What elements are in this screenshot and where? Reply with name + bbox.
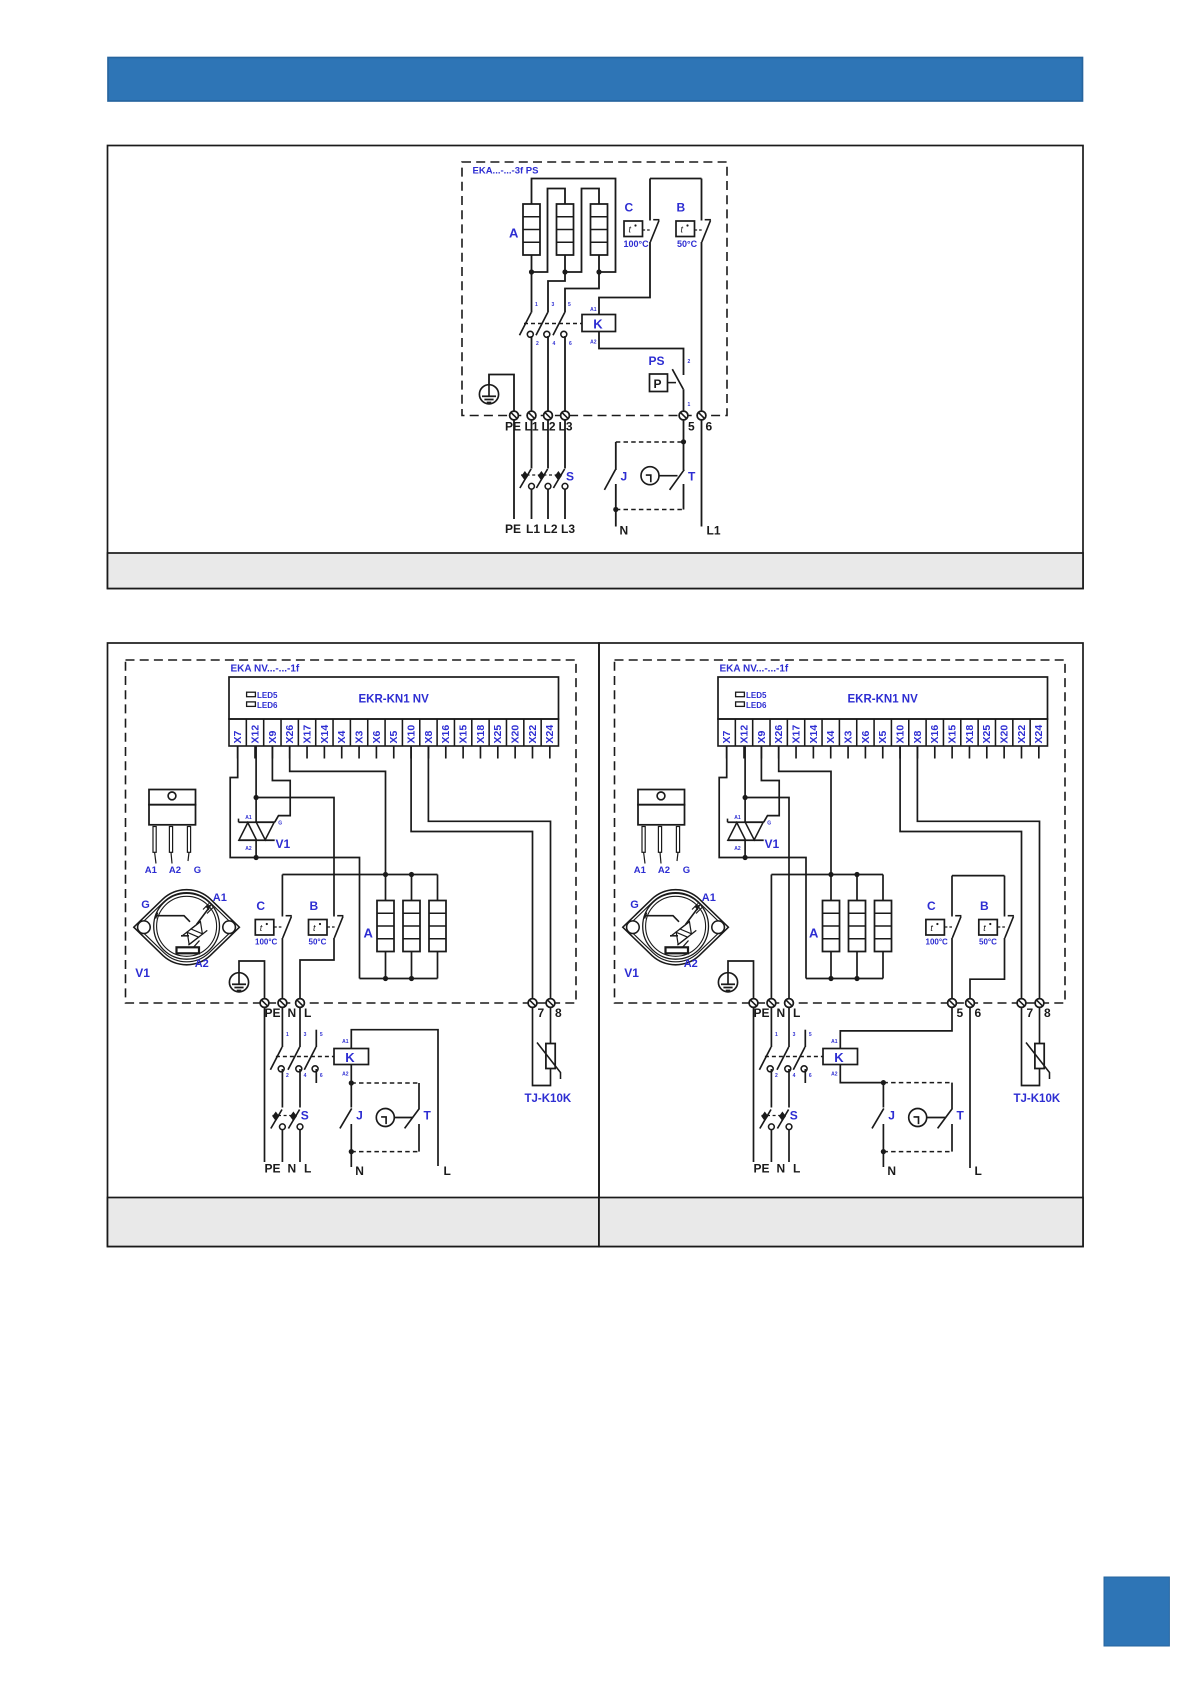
svg-text:L: L xyxy=(793,1162,800,1176)
wire thermostat B to terminal 6 xyxy=(970,938,1005,998)
wire coil A1 to terminal 5 xyxy=(840,1007,952,1048)
wire thermostat B to terminal L xyxy=(300,938,334,998)
svg-text:B: B xyxy=(677,201,686,215)
svg-text:2: 2 xyxy=(775,1073,778,1079)
room thermostat box bottom dashed edge xyxy=(351,1151,419,1153)
switch S linkage dashes xyxy=(272,1115,297,1117)
contactor K pole 1 contact xyxy=(520,313,534,338)
svg-text:L3: L3 xyxy=(561,522,575,536)
svg-text:A1: A1 xyxy=(245,815,252,821)
wire thermostat C to terminal 5 xyxy=(951,938,953,998)
terminal strip labels X7..X24 xyxy=(721,725,1045,744)
controller EKR-KN1 NV box xyxy=(718,677,1048,719)
wire A1 node to thermostat B xyxy=(256,798,334,917)
heater element section 2 xyxy=(403,901,420,952)
svg-text:C: C xyxy=(256,899,265,913)
svg-text:X4: X4 xyxy=(825,730,837,743)
wire pole1 to switch S xyxy=(281,1069,283,1108)
room thermostat box top dashed edge xyxy=(616,441,684,443)
supply labels PE N L xyxy=(754,1162,801,1176)
dashed actuator link B xyxy=(327,926,336,928)
terminal strip separators xyxy=(246,719,541,746)
svg-text:100°C: 100°C xyxy=(926,938,949,947)
room thermostat box top dashed edge xyxy=(351,1082,419,1084)
wire terminal L to pole xyxy=(788,1007,790,1047)
wire PE down xyxy=(513,420,515,519)
main switch S pole 3 xyxy=(553,469,567,489)
wire terminal N to pole xyxy=(281,1007,283,1047)
svg-text:T: T xyxy=(424,1109,432,1123)
svg-text:X10: X10 xyxy=(894,725,906,744)
wire S pole1 down xyxy=(281,1130,283,1163)
wire heater bus to terminal N xyxy=(770,875,772,999)
junction heater top 1 xyxy=(828,872,833,877)
svg-text:PE: PE xyxy=(265,1006,281,1020)
dashed actuator link C xyxy=(643,229,652,231)
contactor coil K xyxy=(334,1049,369,1065)
svg-text:X15: X15 xyxy=(947,725,959,744)
contactor K pole 2 contact xyxy=(288,1047,302,1072)
svg-text:N: N xyxy=(620,524,629,538)
main switch S pole 1 xyxy=(271,1110,286,1130)
svg-text:PS: PS xyxy=(649,354,665,368)
svg-text:X16: X16 xyxy=(440,725,452,744)
svg-text:A2: A2 xyxy=(831,1072,838,1078)
svg-text:5: 5 xyxy=(568,302,571,308)
heater element A section 3 xyxy=(591,204,608,255)
contactor coil K xyxy=(582,315,616,332)
junction at thermostat box corner xyxy=(881,1080,886,1085)
terminal N xyxy=(278,999,287,1008)
heater section 2 bottom stub xyxy=(856,952,858,979)
svg-text:2: 2 xyxy=(688,359,691,365)
wire J down to N xyxy=(882,1124,884,1167)
svg-text:X17: X17 xyxy=(301,725,313,744)
terminal 5 xyxy=(679,411,688,420)
svg-text:50°C: 50°C xyxy=(979,938,997,947)
pin labels 2 4 6 xyxy=(536,341,572,347)
heater section 1 top stub xyxy=(830,875,832,901)
terminal L1 xyxy=(527,411,536,420)
main switch S pole 2 xyxy=(777,1110,791,1130)
svg-text:6: 6 xyxy=(706,420,713,434)
room thermostat box bottom dashed edge xyxy=(616,509,684,511)
thermostat C sensing box xyxy=(926,920,945,936)
heater section 2 bottom stub xyxy=(411,952,413,979)
thermostat C sensing box xyxy=(255,920,273,936)
svg-text:4: 4 xyxy=(793,1073,796,1079)
auxiliary pole stub top xyxy=(315,1030,317,1047)
svg-text:V1: V1 xyxy=(135,966,150,980)
contactor K pole 2 contact xyxy=(536,313,550,338)
svg-text:N: N xyxy=(887,1164,896,1178)
svg-text:A1: A1 xyxy=(634,865,647,876)
heater section 2 top stub xyxy=(411,875,413,901)
terminal stub wires xyxy=(238,746,550,759)
svg-text:A2: A2 xyxy=(734,846,741,852)
wire S pole1 down xyxy=(770,1130,772,1163)
terminal row labels PE L1 L2 L3 xyxy=(505,420,573,434)
wire terminal N to pole xyxy=(770,1007,772,1047)
wire box corner to contact T xyxy=(418,1083,420,1109)
heater section 3 top stub xyxy=(437,875,439,901)
svg-text:6: 6 xyxy=(569,341,572,347)
pin labels 1 3 5 xyxy=(535,302,571,308)
panel 3 caption strip xyxy=(599,1198,1083,1247)
disc triac module drawing V1 xyxy=(623,890,729,965)
wire T to box bottom corner xyxy=(951,1124,953,1152)
room thermostat box top dashed edge xyxy=(883,1082,952,1084)
wire terminal 6 to phase L xyxy=(969,1007,971,1168)
right bottom panel circuit xyxy=(615,660,1066,1178)
junction A1 node xyxy=(254,795,259,800)
wire S pole2 down xyxy=(547,489,549,519)
svg-text:100°C: 100°C xyxy=(624,239,650,249)
junction heater bottom 2 xyxy=(409,976,414,981)
wire heater3 bottom to node 3 xyxy=(598,255,600,272)
svg-text:4: 4 xyxy=(304,1073,307,1079)
heater element A section 2 xyxy=(557,204,574,255)
wire coil A1 to phase L xyxy=(351,1030,438,1166)
svg-text:EKR-KN1 NV: EKR-KN1 NV xyxy=(359,694,430,706)
svg-text:X9: X9 xyxy=(756,730,768,743)
svg-text:PE: PE xyxy=(505,420,521,434)
thermostat B contact xyxy=(1005,916,1014,938)
control bus thermostat top xyxy=(650,178,702,180)
svg-text:B: B xyxy=(980,899,989,913)
wire sensor to contact T xyxy=(927,1117,946,1119)
svg-text:X10: X10 xyxy=(405,725,417,744)
heater element A section 1 xyxy=(523,204,540,255)
pole pin labels top xyxy=(286,1032,323,1038)
heater section 1 top stub xyxy=(385,875,387,901)
wire thermostat C to terminal N xyxy=(281,938,283,998)
protective earth symbol xyxy=(718,973,737,992)
wire PS to terminal 5 xyxy=(683,389,685,411)
heater bottom bus xyxy=(806,978,883,980)
control bus thermostat top xyxy=(952,875,1005,877)
wire L1 to switch S pole 1 xyxy=(531,420,533,469)
wire triac A2 to node xyxy=(744,840,746,857)
terminal 7 xyxy=(1017,999,1026,1008)
svg-text:3: 3 xyxy=(304,1032,307,1038)
heater bottom bus xyxy=(360,978,438,980)
wire X10 to terminal 7 xyxy=(900,746,1021,998)
thermometer sensor symbol xyxy=(376,1109,394,1127)
panel 2 table frame xyxy=(108,643,600,1247)
dashed enclosure box EKA NV...-...-1f xyxy=(615,660,1066,1003)
wire earth to terminal PE xyxy=(239,961,265,998)
svg-text:1: 1 xyxy=(688,402,691,408)
contactor K pole 3 contact xyxy=(304,1047,318,1072)
svg-text:A1: A1 xyxy=(831,1039,838,1045)
panel 1 table frame xyxy=(108,146,1084,589)
thermometer sensor symbol xyxy=(909,1109,927,1127)
LED5 indicator xyxy=(247,692,256,697)
junction heater top 1 xyxy=(383,872,388,877)
svg-text:EKA NV...-...-1f: EKA NV...-...-1f xyxy=(231,664,300,675)
svg-text:X26: X26 xyxy=(284,725,296,744)
svg-text:L: L xyxy=(304,1162,311,1176)
terminal 8 xyxy=(1035,999,1044,1008)
wire heater1 bottom to node 1 xyxy=(531,255,533,272)
switch S linkage dashes xyxy=(761,1115,786,1117)
svg-text:X24: X24 xyxy=(1033,725,1045,744)
svg-text:6: 6 xyxy=(320,1073,323,1079)
terminal PE xyxy=(749,999,758,1008)
junction heater bottom 1 xyxy=(383,976,388,981)
auxiliary pole stub top xyxy=(804,1030,806,1047)
LED6 indicator xyxy=(736,702,745,707)
panel 1 caption strip xyxy=(108,553,1084,589)
wire pole2 to switch S xyxy=(299,1069,301,1108)
terminal strip labels X7..X24 xyxy=(232,725,556,744)
temperature sensor TJ-K10K xyxy=(1022,1007,1050,1085)
terminal stub wires xyxy=(727,746,1039,759)
wire S pole3 down xyxy=(564,489,566,519)
footer page-number block xyxy=(1104,1577,1169,1646)
switch S linkage dashes xyxy=(521,474,560,476)
svg-text:A2: A2 xyxy=(245,846,252,852)
svg-text:EKR-KN1 NV: EKR-KN1 NV xyxy=(848,694,919,706)
wire X12 to triac A1 xyxy=(255,746,257,822)
wire bus to thermostat C contact xyxy=(649,179,651,221)
thermostat C contact xyxy=(650,220,659,242)
svg-text:K: K xyxy=(345,1050,355,1065)
junction heater top 2 xyxy=(854,872,859,877)
svg-text:LED5: LED5 xyxy=(257,691,278,700)
wire sensor to contact T xyxy=(394,1117,412,1119)
heater element section 3 xyxy=(875,901,892,952)
wire coil A2 to pressure switch xyxy=(599,332,684,376)
svg-text:A2: A2 xyxy=(195,958,209,970)
svg-text:8: 8 xyxy=(555,1006,562,1020)
svg-text:X17: X17 xyxy=(790,725,802,744)
node 3 junction xyxy=(596,269,601,274)
pressure sensor box P xyxy=(650,374,668,392)
main switch S pole 1 xyxy=(520,469,534,489)
dashed actuator link B xyxy=(695,229,704,231)
wire node2 to contactor pole 2 xyxy=(548,272,565,313)
contactor K pole 1 contact xyxy=(270,1047,284,1072)
wire node1 to contactor pole 1 xyxy=(531,272,533,313)
svg-text:3: 3 xyxy=(552,302,555,308)
room thermostat contact T xyxy=(670,470,685,490)
terminal strip outline xyxy=(718,719,1048,746)
room thermostat contact T xyxy=(405,1108,420,1128)
terminal 6 xyxy=(966,999,975,1008)
terminal 7 xyxy=(528,999,537,1008)
svg-text:G: G xyxy=(630,899,639,911)
auxiliary pole stub bottom xyxy=(315,1069,317,1083)
svg-text:7: 7 xyxy=(538,1006,545,1020)
supply labels PE L1 L2 L3 xyxy=(505,522,575,536)
wire terminal 5 to room thermostat box xyxy=(683,420,685,470)
wire bus to thermostat C contact xyxy=(951,876,953,917)
svg-text:PE: PE xyxy=(505,522,521,536)
svg-text:X7: X7 xyxy=(232,730,244,743)
svg-text:PE: PE xyxy=(754,1162,770,1176)
wire J down to N xyxy=(615,484,617,527)
wire PE down xyxy=(264,1007,266,1162)
terminal N xyxy=(767,999,776,1008)
svg-text:5: 5 xyxy=(809,1032,812,1038)
room thermostat contact J xyxy=(340,1108,352,1128)
mechanical linkage dashed line xyxy=(524,323,582,325)
svg-text:X22: X22 xyxy=(527,725,539,744)
junction at box bottom left xyxy=(349,1149,354,1154)
wire pole2 to terminal L2 xyxy=(547,336,549,411)
svg-text:G: G xyxy=(683,865,690,876)
contactor coil K xyxy=(823,1049,858,1065)
page header bar xyxy=(108,58,1083,102)
svg-text:C: C xyxy=(625,201,634,215)
svg-text:J: J xyxy=(888,1109,895,1123)
wire X9 to triac gate xyxy=(272,746,290,822)
svg-text:X3: X3 xyxy=(353,730,365,743)
svg-text:X24: X24 xyxy=(544,725,556,744)
svg-text:L1: L1 xyxy=(526,522,540,536)
svg-text:X8: X8 xyxy=(423,730,435,743)
thermometer sensor symbol xyxy=(641,467,659,485)
svg-text:G: G xyxy=(141,899,150,911)
svg-text:X18: X18 xyxy=(475,725,487,744)
temperature sensor TJ-K10K xyxy=(533,1007,561,1085)
triac package drawing xyxy=(149,790,196,864)
supply labels PE N L xyxy=(265,1162,312,1176)
wire pole2 to switch S xyxy=(788,1069,790,1108)
wire S pole2 down xyxy=(788,1130,790,1163)
pole pin labels top xyxy=(775,1032,812,1038)
terminal L3 xyxy=(561,411,570,420)
svg-text:G: G xyxy=(278,820,282,826)
junction heater bottom 1 xyxy=(828,976,833,981)
main switch S pole 1 xyxy=(760,1110,775,1130)
wire triac A2 to node xyxy=(255,840,257,857)
svg-text:X26: X26 xyxy=(773,725,785,744)
svg-text:L: L xyxy=(975,1164,982,1178)
svg-text:V1: V1 xyxy=(276,837,291,851)
wire sensor to contact T xyxy=(659,475,678,477)
panel 2 caption strip xyxy=(108,1198,600,1247)
wire S pole1 down xyxy=(531,489,533,519)
svg-text:1: 1 xyxy=(286,1032,289,1038)
wire S pole2 down xyxy=(299,1130,301,1163)
terminal labels PE N L xyxy=(754,1006,801,1020)
wire top bus to thermostat C xyxy=(281,875,283,917)
contactor K pole 2 contact xyxy=(777,1047,791,1072)
junction A1 node xyxy=(743,795,748,800)
svg-text:EKA NV...-...-1f: EKA NV...-...-1f xyxy=(720,664,789,675)
pole pin labels bottom xyxy=(286,1073,323,1079)
svg-text:5: 5 xyxy=(320,1032,323,1038)
heater top bus xyxy=(282,874,437,876)
wire thermostat B to terminal 6 xyxy=(701,242,703,411)
wire X10 to terminal 7 xyxy=(411,746,532,998)
svg-text:K: K xyxy=(834,1050,844,1065)
terminal L2 xyxy=(544,411,553,420)
contact J wire from box top xyxy=(615,442,617,470)
svg-text:C: C xyxy=(927,899,936,913)
svg-text:N: N xyxy=(777,1162,786,1176)
terminal 8 xyxy=(546,999,555,1008)
svg-text:X12: X12 xyxy=(249,725,261,744)
wire T to box corner xyxy=(683,484,685,510)
junction at thermostat box corner xyxy=(681,439,686,444)
svg-text:A1: A1 xyxy=(213,892,227,904)
svg-text:N: N xyxy=(288,1162,297,1176)
svg-text:A2: A2 xyxy=(684,958,698,970)
contactor K pole 3 contact xyxy=(553,313,567,338)
terminal strip separators xyxy=(735,719,1030,746)
svg-text:T: T xyxy=(957,1109,965,1123)
svg-text:X20: X20 xyxy=(999,725,1011,744)
wire A1 node to terminal L xyxy=(745,798,789,999)
contactor K pole 1 contact xyxy=(759,1047,773,1072)
wire X7 to triac A2 loop xyxy=(719,746,806,979)
svg-text:PE: PE xyxy=(265,1162,281,1176)
terminal labels PE N L xyxy=(265,1006,312,1020)
svg-text:5: 5 xyxy=(957,1006,964,1020)
junction at box bottom left xyxy=(613,507,618,512)
heater element section 3 xyxy=(429,901,446,952)
svg-text:L2: L2 xyxy=(544,522,558,536)
svg-text:X5: X5 xyxy=(388,730,400,743)
svg-text:X15: X15 xyxy=(458,725,470,744)
svg-text:A: A xyxy=(364,926,374,941)
node 1 junction xyxy=(529,269,534,274)
svg-text:A1: A1 xyxy=(342,1039,349,1045)
svg-text:A: A xyxy=(809,926,819,941)
wire bus to thermostat B contact xyxy=(1004,876,1006,917)
svg-text:A2: A2 xyxy=(342,1072,349,1078)
protective earth symbol xyxy=(229,973,248,992)
svg-text:B: B xyxy=(310,899,319,913)
junction at thermostat box corner xyxy=(349,1080,354,1085)
wire X26 to heater top bus xyxy=(290,746,386,875)
wire pole1 to terminal L1 xyxy=(531,336,533,411)
svg-text:K: K xyxy=(593,317,603,332)
thermostat B contact xyxy=(702,220,711,242)
wire L2 to switch S pole 2 xyxy=(547,420,549,469)
svg-text:L: L xyxy=(793,1006,800,1020)
svg-text:5: 5 xyxy=(688,420,695,434)
svg-text:T: T xyxy=(688,470,696,484)
svg-text:G: G xyxy=(194,865,201,876)
wire junction to contact J xyxy=(882,1083,884,1108)
svg-text:G: G xyxy=(767,820,771,826)
terminal labels 5 6 xyxy=(957,1006,982,1020)
svg-text:X9: X9 xyxy=(267,730,279,743)
wire X8 to terminal 8 xyxy=(428,746,550,998)
svg-text:X20: X20 xyxy=(510,725,522,744)
wire earth to terminal PE xyxy=(489,375,514,412)
pressure switch PS contact xyxy=(668,369,684,389)
svg-text:6: 6 xyxy=(809,1073,812,1079)
svg-text:L1: L1 xyxy=(707,524,721,538)
svg-text:X12: X12 xyxy=(738,725,750,744)
svg-text:X6: X6 xyxy=(371,730,383,743)
heater section 3 bottom stub xyxy=(437,952,439,979)
left bottom panel circuit xyxy=(126,660,577,1178)
svg-text:A2: A2 xyxy=(658,865,670,876)
svg-text:X8: X8 xyxy=(912,730,924,743)
wire bus to thermostat B contact xyxy=(701,179,703,221)
svg-text:100°C: 100°C xyxy=(255,938,278,947)
svg-text:J: J xyxy=(356,1109,363,1123)
svg-text:S: S xyxy=(566,470,574,484)
controller EKR-KN1 NV box xyxy=(229,677,559,719)
